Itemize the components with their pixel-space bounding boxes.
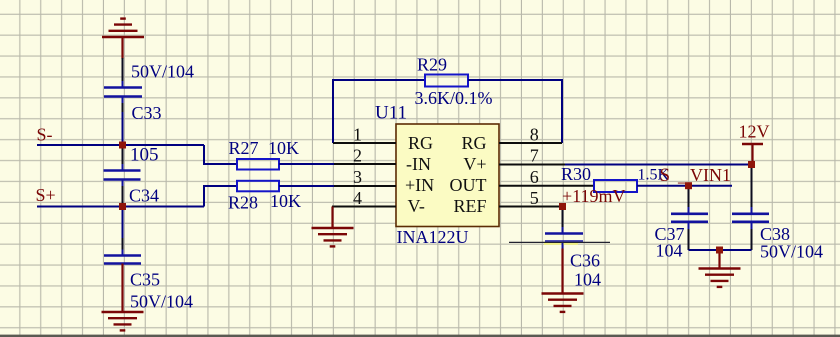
svg-text:V-: V- [408,196,425,216]
wire pin1 loop left [333,80,425,143]
capacitor C34 [104,171,141,180]
svg-text:R29: R29 [417,55,447,75]
sheet bottom border [0,335,840,337]
svg-text:4: 4 [353,188,362,208]
capacitor C38 [732,214,769,222]
svg-text:104: 104 [656,240,683,260]
svg-text:5: 5 [530,188,539,208]
svg-text:2: 2 [353,145,362,165]
svg-text:R28: R28 [228,193,258,213]
wire node to C34 [122,145,124,164]
svg-text:S-: S- [37,125,53,145]
wire C33 to node S- [122,97,124,104]
svg-text:RG: RG [408,133,433,153]
wire S- horizontal [37,144,204,146]
wire R27 to pin 2 [279,163,396,165]
resistor R30 [594,180,637,192]
wire rail to ground [718,250,720,269]
svg-text:3: 3 [353,167,362,187]
op-amp U11 body [396,124,499,227]
ground at pin 4 [312,207,354,247]
resistor R28 [237,181,279,192]
svg-text:R30: R30 [561,164,591,184]
junction pin5 node [559,203,566,210]
ground right [699,269,741,287]
capacitor C36 [509,234,610,245]
ground below C36 [542,294,584,312]
svg-text:1: 1 [353,124,362,144]
svg-text:105: 105 [130,145,159,166]
wire C38 to ground rail [751,222,753,229]
pin 7 [499,164,565,166]
pin 8 [499,142,562,144]
svg-text:VIN1: VIN1 [690,165,731,185]
wire VIN1 to C37 [688,186,690,207]
svg-text:-IN: -IN [406,154,431,174]
svg-text:3.6K/0.1%: 3.6K/0.1% [415,88,493,108]
power ground (top, inverted) [102,19,144,59]
svg-text:7: 7 [530,145,539,165]
wire 12V node to C38 [751,165,753,208]
svg-text:50V/104: 50V/104 [130,292,193,312]
capacitor C35 [104,256,141,264]
wire C35 to ground [121,264,123,313]
svg-text:12V: 12V [739,122,770,142]
junction ground rail [716,247,723,254]
svg-text:OUT: OUT [450,175,487,195]
svg-text:C33: C33 [132,103,162,123]
junction 12V / pin7 [748,161,755,168]
junction VIN1 [685,182,692,189]
junction S+/C34/C35 [119,203,126,210]
svg-text:RG: RG [461,133,486,153]
svg-text:S+: S+ [36,185,56,205]
ground rail between C37 and C38 [689,249,752,251]
wire R28 to pin 3 [279,185,396,187]
svg-text:U11: U11 [375,103,407,124]
svg-text:6: 6 [530,167,539,187]
svg-text:+IN: +IN [405,175,434,195]
wire S+ horizontal [37,206,204,208]
svg-text:C35: C35 [130,270,160,290]
pin 2 [334,163,396,165]
wire R30 to VIN1 [637,185,732,187]
wire node to C35 [122,207,124,239]
wire S+ corner to R28 [204,186,237,207]
power port 12V [739,122,770,165]
svg-text:REF: REF [453,196,486,216]
pin 3 [334,185,396,187]
svg-text:104: 104 [574,270,601,290]
svg-text:INA122U: INA122U [397,227,469,247]
wire S- corner to R27 [204,145,237,164]
wire R29 to pin8 loop right [468,80,562,143]
ground below C35 [102,312,144,330]
capacitor C33 [104,88,142,97]
junction S-/C33/C34 [119,142,126,149]
svg-text:C34: C34 [129,186,159,206]
pin 4 [332,206,396,208]
wire C34 to node S+ [122,180,124,187]
pin 6 [499,185,594,187]
svg-text:50V/104: 50V/104 [131,62,194,82]
wire pin5 to C36 [562,207,564,228]
svg-text:C36: C36 [570,251,600,271]
svg-text:10K: 10K [268,138,299,158]
svg-text:+119mV: +119mV [562,186,625,206]
wire C36 to ground [562,243,564,249]
pin 1 [333,142,396,144]
svg-text:50V/104: 50V/104 [760,241,823,261]
svg-text:10K: 10K [270,191,301,211]
wire gnd to C33 [122,58,124,81]
pin 5 [499,206,563,208]
svg-text:8: 8 [530,124,539,144]
capacitor C37 [671,214,708,222]
resistor R27 [237,159,279,170]
svg-text:S: S [660,165,671,186]
wire pin7 to 12V node [565,164,752,166]
svg-text:_: _ [677,165,688,185]
svg-text:R27: R27 [229,138,259,158]
resistor R29 [425,75,468,87]
wire C37 to ground rail [688,222,690,229]
svg-text:V+: V+ [463,154,486,174]
